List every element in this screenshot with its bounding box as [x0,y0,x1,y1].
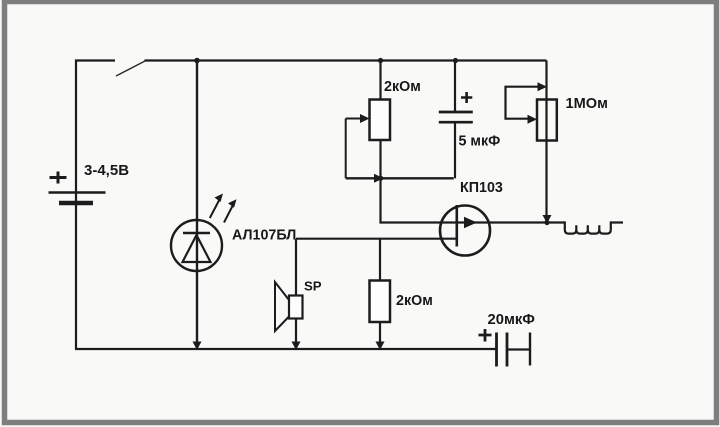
svg-text:3-4,5В: 3-4,5В [84,162,129,179]
wire bottom rail [75,348,496,350]
svg-text:1МОм: 1МОм [566,96,608,112]
node at top of resistor R1 [378,58,383,63]
junction arrow at bottom of LED branch [193,342,202,351]
junction arrow and node at inductor [543,215,552,225]
capacitor C1 plates [439,112,473,122]
wire top-left segment from battery to switch [75,59,115,61]
wire left vertical battery branch [75,60,77,350]
svg-text:SP: SP [304,279,322,294]
R3 loop arrowhead into vertical [538,82,548,91]
potentiometer R3 1МОм body [537,100,557,141]
svg-text:2кОм: 2кОм [396,293,433,309]
R3 wiper arrowhead [528,115,538,124]
C2 polarity plus sign [479,329,492,342]
resistor R2 2кОм body [370,281,391,323]
wire bottom of R1 to bottom of C1 [346,177,454,179]
junction arrow at bottom of speaker branch [292,342,301,351]
capacitor C1 bottom lead [454,122,456,178]
junction arrow at bottom of R2 [376,342,385,351]
wire top segment from switch to right corner [145,59,547,61]
wire right column vertical from top corner through R3 [545,61,547,223]
svg-text:5 мкФ: 5 мкФ [459,134,501,150]
svg-text:АЛ107БЛ: АЛ107БЛ [232,228,296,244]
wire from node under R1 down and right to transistor [381,178,442,222]
potentiometer R1 2кОм top lead [379,61,381,100]
capacitor C2 20мкФ plates [497,333,508,367]
wire channel line through transistor to inductor node [441,221,547,223]
node at top of capacitor C1 [453,58,458,63]
terminal plate right of C2 [529,333,531,366]
wire speaker to bottom rail [295,319,297,350]
C1 polarity plus sign [461,92,472,103]
potentiometer R1 2кОм body [370,100,391,141]
R3 wiper loop wire [506,87,541,119]
LED emission arrow 2 [224,199,237,222]
svg-text:2кОм: 2кОм [384,79,421,95]
resistor R2 2кОм top lead from gate line [379,239,381,281]
switch SA1 blade [116,61,146,77]
capacitor C1 5мкФ top lead [454,61,456,112]
transistor VT1 КП103 [440,205,490,256]
potentiometer R1 bottom lead [379,140,381,178]
wire LED branch vertical [196,61,198,350]
wire gate line from speaker corner to transistor [296,238,457,240]
junction arrow at node under R1 [374,174,384,183]
LED VD1 [171,220,222,271]
wire speaker branch vertical [295,239,297,296]
wire R1 wiper loop down-left [345,119,347,179]
resistor R2 bottom lead [379,322,381,349]
svg-text:20мкФ: 20мкФ [488,312,536,328]
svg-text:КП103: КП103 [460,180,503,196]
battery GB1 [49,172,106,204]
node at top of LED branch [194,58,200,64]
speaker SP [275,282,303,331]
LED emission arrow 1 [210,194,223,219]
wire stub after C2 [508,348,530,350]
inductor L1 [547,223,623,234]
potentiometer R1 wiper arrow [346,114,370,123]
